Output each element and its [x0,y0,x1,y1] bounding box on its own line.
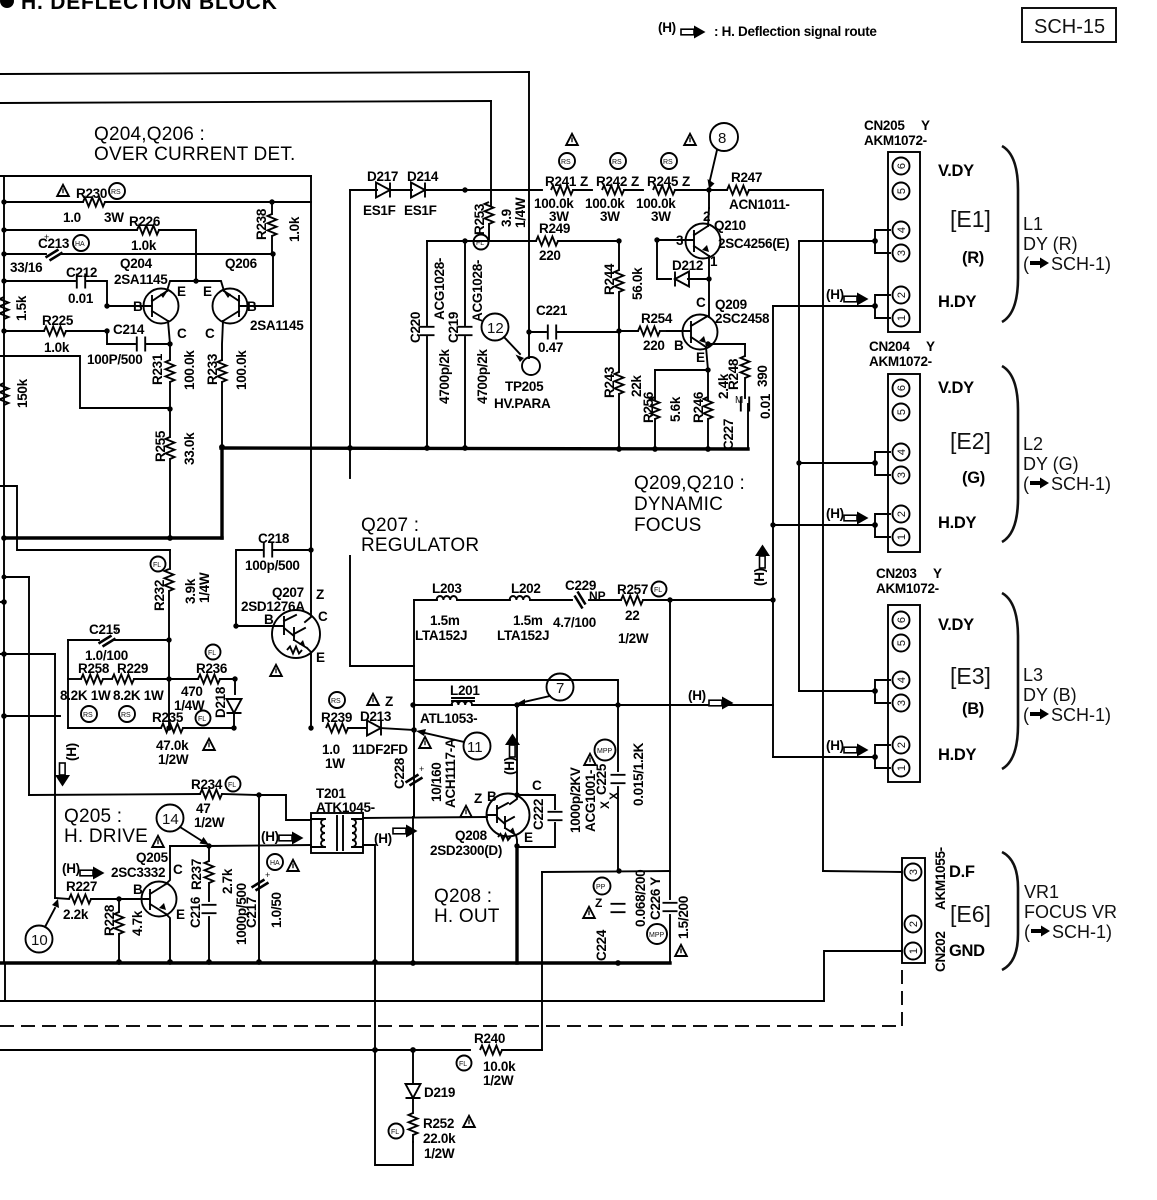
svg-text:C221: C221 [536,303,568,318]
svg-text:3: 3 [896,250,908,256]
wire Q205 collector row [170,845,209,847]
svg-text:MPP: MPP [649,932,665,939]
svg-text:2: 2 [896,511,908,517]
wire line B (V.DY pair feed) [798,242,800,691]
svg-text:Z: Z [474,791,482,806]
svg-text:D214: D214 [407,169,439,184]
connector CN202 [902,847,948,972]
svg-text:(H): (H) [826,738,844,753]
resistor R244 [602,238,645,331]
svg-text:3: 3 [896,700,908,706]
SCH-15 box [1022,8,1116,42]
svg-text:Z: Z [631,174,639,189]
bracket pins 2-1 [875,514,890,537]
resistor R256 [641,391,683,449]
svg-text:C: C [173,862,183,877]
svg-text:R239: R239 [321,710,352,725]
resistor R257 [617,582,776,647]
svg-text:6: 6 [896,385,908,391]
svg-text:CN203: CN203 [876,566,917,581]
pin 2 [893,506,910,523]
resistor R234 [29,777,259,831]
svg-text:1.5k: 1.5k [14,295,29,321]
svg-text:R236: R236 [196,661,228,676]
pin 6 [893,380,910,397]
svg-text:DY (G): DY (G) [1023,454,1079,474]
svg-text:R228: R228 [102,904,117,936]
pin 3 [893,467,910,484]
svg-text:R256: R256 [641,391,656,423]
pin 3 [893,245,910,262]
svg-text:C216: C216 [188,896,203,928]
capacitor C219 [446,241,490,448]
svg-text:H. DRIVE: H. DRIVE [64,826,148,847]
brace E2 [1002,366,1018,542]
wire E1 H pair [773,305,875,307]
legend H deflection signal route [658,20,877,39]
resistor R233 [205,350,249,447]
svg-text:14: 14 [162,811,179,828]
svg-text:7: 7 [556,680,564,697]
resistor R232 [151,550,213,640]
capacitor C224 [583,870,648,961]
svg-text:ATL1053-: ATL1053- [420,711,477,726]
svg-text:+: + [114,625,119,635]
svg-text:FL: FL [228,782,236,789]
resistor R238 [254,199,302,254]
svg-text:HA: HA [270,860,280,867]
svg-text:(H): (H) [826,287,844,302]
svg-text:L2: L2 [1023,434,1043,454]
svg-text:4: 4 [896,677,908,683]
connector CN203 [876,566,942,782]
svg-text:SCH-1): SCH-1) [1052,922,1112,942]
wire ground return loop [375,962,413,1165]
wire E2 V pair [799,462,875,464]
resistor R226 row [4,214,196,281]
wire feedback left loop [0,356,170,408]
svg-text:56.0k: 56.0k [630,267,645,300]
svg-text:NP: NP [589,589,606,603]
svg-text:V.DY: V.DY [938,162,974,180]
transistor Q204 [107,256,199,344]
svg-text:100p/500: 100p/500 [245,558,300,573]
svg-text:1.0k: 1.0k [44,340,70,355]
svg-text:6: 6 [896,163,908,169]
transistor Q206 [196,254,304,360]
svg-text:R230: R230 [76,186,107,201]
svg-text:E: E [203,284,212,299]
svg-text:(H): (H) [502,757,517,775]
svg-text:+: + [419,764,424,774]
wire C224 top row y871 [542,871,670,872]
svg-text:100.0k: 100.0k [234,350,249,390]
svg-text:1: 1 [896,765,908,771]
resistor R228 [102,896,145,962]
testpoint TP205 [494,357,551,411]
resistor 150k left rail [0,378,30,408]
svg-text:C: C [532,778,542,793]
svg-text:0.01: 0.01 [758,393,773,419]
svg-text:(: ( [1023,254,1029,274]
svg-text:ES1F: ES1F [404,203,437,218]
resistor R249 [536,221,619,263]
svg-text:+: + [265,870,270,880]
wire stub y486 to R232 top row [0,486,170,550]
resistor R230 row [4,183,311,225]
svg-text:RS: RS [121,712,131,719]
pin 1 [893,310,910,327]
resistor R237 [189,846,235,901]
svg-text:(G): (G) [962,469,985,487]
signal arrow (H) into Q205 base [62,861,105,880]
svg-text:L201: L201 [450,683,480,698]
pin 1 [893,760,910,777]
signal arrow (H) E1 [826,287,869,306]
svg-text:1/4W: 1/4W [513,197,528,228]
svg-text:4: 4 [896,227,908,233]
signal arrow (H) E2 [826,506,869,525]
svg-text:C: C [177,326,187,341]
diode D218 [213,676,242,730]
bracket pins 2-1 [875,295,890,318]
wire line C (H.DY feed) [772,306,774,757]
wire T201 secondary bottom to bus [363,845,375,962]
svg-text:C: C [205,326,215,341]
connector CN205 [864,118,930,332]
svg-text:ACH1117-A: ACH1117-A [443,738,458,808]
pin 3 [893,695,910,712]
svg-text:LTA152J: LTA152J [415,628,467,643]
wire dashed boundary [0,1025,902,1027]
resistor R253 [472,197,528,249]
svg-text:3W: 3W [549,209,569,224]
capacitor C229 [553,578,621,630]
capacitor C217 [244,795,299,962]
svg-text:E: E [316,650,325,665]
svg-text:1: 1 [710,254,718,269]
resistor R231 [150,344,197,409]
svg-text:V.DY: V.DY [938,379,974,397]
svg-text:470: 470 [181,684,203,699]
svg-text:1.0k: 1.0k [287,216,302,242]
svg-text:ES1F: ES1F [363,203,396,218]
svg-text:2: 2 [896,292,908,298]
callout 14 [157,805,210,846]
svg-text:RS: RS [83,712,93,719]
resistor R245 [636,134,709,224]
svg-text:(H): (H) [658,20,676,35]
svg-text:ACG1028-: ACG1028- [432,258,447,320]
svg-text:RS: RS [111,189,121,196]
svg-text:33/16: 33/16 [10,260,43,275]
svg-text:2: 2 [703,209,710,224]
svg-text:DYNAMIC: DYNAMIC [634,494,723,515]
section label Q209,Q210 DYNAMIC FOCUS [634,473,745,536]
wire right rail to Q207 collector [310,176,312,611]
svg-text:Q207: Q207 [272,585,304,600]
pin 2 [893,737,910,754]
capacitor C226 [647,600,691,963]
capacitor C225 [584,702,646,871]
wire riser x55 to R227 row [54,654,56,898]
capacitor C221 [526,303,619,355]
transistor Q205 [111,846,185,962]
svg-text:X: X [598,801,612,809]
svg-text:5: 5 [896,409,908,415]
svg-text:Q204: Q204 [120,256,153,271]
wire R232 bottom to R236 row [168,640,170,728]
svg-text:C212: C212 [66,265,97,280]
svg-text:2.7k: 2.7k [220,868,235,894]
wire diode row to R241 [465,189,542,191]
svg-text:GND: GND [949,942,985,960]
svg-text:4.7/100: 4.7/100 [553,615,596,630]
svg-text:T201: T201 [316,786,346,801]
wire rail x350 bus to row666 [349,449,351,478]
wire line A (R247 node to CN202 D.F) [822,190,824,871]
svg-text:Y: Y [933,566,942,581]
svg-text:Q210: Q210 [714,218,746,233]
callout 8 [708,123,739,189]
svg-text:(B): (B) [962,700,984,718]
resistor R246 [691,370,731,449]
pin 1 [905,943,922,960]
svg-text:[E3]: [E3] [950,663,991,689]
svg-text:4700p/2k: 4700p/2k [475,349,490,404]
wire box top rail [0,175,311,177]
labels E6 [949,863,991,960]
svg-text:R241: R241 [545,174,577,189]
svg-text:+: + [44,232,49,242]
svg-text:8: 8 [718,130,726,147]
svg-text:(H): (H) [374,831,392,846]
signal arrow (H) up at x513 [502,734,520,776]
svg-text:L3: L3 [1023,665,1043,685]
svg-text:1: 1 [908,948,920,954]
svg-text:Q205: Q205 [136,850,169,865]
svg-text:E: E [176,907,185,922]
svg-text:Q204,Q206 :: Q204,Q206 : [94,124,205,145]
wire E3 V pair [799,690,875,692]
svg-text:C220: C220 [408,312,423,343]
section label Q207 REGULATOR [361,515,479,556]
svg-text:Q209: Q209 [715,297,747,312]
diode D217 [350,169,398,218]
svg-text:B: B [674,338,684,353]
wire left drop x350 [349,190,351,448]
capacitor C213 row [4,232,276,275]
svg-text:1.0: 1.0 [63,210,81,225]
svg-text:Q206: Q206 [225,256,258,271]
signal arrow (H) after T201 [374,825,418,847]
wire bus y1001 [0,1000,824,1002]
svg-text:100.0k: 100.0k [182,350,197,390]
svg-text:0.015/1.2K: 0.015/1.2K [631,742,646,806]
label L3 DY(B) [1023,665,1111,725]
svg-text:1000p/2KV: 1000p/2KV [568,767,583,833]
pin 4 [893,444,910,461]
capacitor C218 [233,531,313,629]
svg-text:D218: D218 [213,686,228,718]
resistor R240 [457,1031,543,1088]
svg-text:R231: R231 [150,353,165,385]
pin 2 [905,916,922,933]
wire thick emitter rail y538 [4,536,222,539]
svg-text:Y: Y [921,118,930,133]
svg-text:ACG1001-: ACG1001- [583,770,598,832]
svg-text:[E6]: [E6] [950,901,991,927]
signal arrow (H) right y697 [688,688,734,710]
svg-text:RS: RS [612,159,622,166]
svg-text:D217: D217 [367,169,398,184]
svg-text:MPP: MPP [597,748,613,755]
svg-text:1/2W: 1/2W [618,631,649,646]
svg-text:R240: R240 [474,1031,505,1046]
svg-text:1.0/50: 1.0/50 [269,892,284,928]
svg-text:1.5m: 1.5m [513,613,543,628]
svg-text:DY (R): DY (R) [1023,234,1078,254]
svg-text:H.DY: H.DY [938,293,977,311]
svg-text:B: B [133,299,143,314]
svg-text:(: ( [1023,705,1029,725]
resistor R227 [55,879,119,922]
svg-text:D212: D212 [672,258,703,273]
resistor R252 [389,1113,475,1161]
wire main ground bus y963 (thick) [0,961,670,964]
svg-text:R245: R245 [647,174,679,189]
svg-text:VR1: VR1 [1024,882,1059,902]
svg-text:FOCUS VR: FOCUS VR [1024,902,1117,922]
svg-text:C228: C228 [392,757,407,789]
svg-text:C224: C224 [594,929,609,961]
svg-text:R253: R253 [472,203,487,235]
svg-text:Y: Y [926,339,935,354]
svg-text:E: E [524,830,533,845]
svg-text:R257: R257 [617,582,648,597]
svg-text:R226: R226 [129,214,161,229]
pin 6 [893,612,910,629]
svg-text:3: 3 [676,233,684,248]
wire Q209 emitter node [655,367,711,400]
svg-text:1/2W: 1/2W [158,752,189,767]
signal arrow (H) up at x762 [752,545,770,587]
resistor R225 row [4,313,107,355]
svg-text:C: C [696,295,706,310]
svg-text:22: 22 [625,608,639,623]
svg-text:3W: 3W [651,209,671,224]
capacitor C214 [87,303,173,367]
svg-text:RS: RS [561,159,571,166]
svg-text:8.2K 1W: 8.2K 1W [113,688,164,703]
resistor 1.5k left rail [0,295,29,321]
wire left rail [3,176,5,963]
resistor R258 [60,661,112,722]
svg-text:: H. Deflection signal route: : H. Deflection signal route [714,24,877,39]
svg-text:V.DY: V.DY [938,616,974,634]
svg-text:11: 11 [467,739,483,756]
svg-text:(R): (R) [962,249,984,267]
pin 2 [893,287,910,304]
svg-text:C: C [318,609,328,624]
svg-text:R232: R232 [152,580,167,611]
svg-text:(H): (H) [826,506,844,521]
svg-text:H. DEFLECTION BLOCK: H. DEFLECTION BLOCK [21,0,278,14]
diode D219 (zener) [406,1050,456,1113]
svg-text:220: 220 [539,248,561,263]
wire C228 rail down to T201 secondary and bus [413,787,415,817]
wire E1 V pair [799,240,875,242]
svg-text:B: B [247,299,257,314]
wire E2 H pair [773,524,875,526]
svg-text:2.2k: 2.2k [63,907,89,922]
callout 10 [26,899,60,953]
svg-text:FL: FL [208,650,216,657]
svg-text:R252: R252 [423,1116,454,1131]
svg-text:Z: Z [595,896,602,910]
svg-text:AKM1072-: AKM1072- [869,354,932,369]
svg-text:1.5m: 1.5m [430,613,460,628]
svg-text:D219: D219 [424,1085,455,1100]
svg-text:(H): (H) [62,861,80,876]
wire row y1050 [0,1049,470,1051]
label L1 DY(R) [1023,214,1111,274]
svg-text:390: 390 [755,365,770,387]
svg-text:47: 47 [196,801,210,816]
svg-text:AKM1072-: AKM1072- [876,581,939,596]
svg-text:100P/500: 100P/500 [87,352,142,367]
svg-text:ATK1045-: ATK1045- [316,800,375,815]
svg-text:R243: R243 [602,366,617,398]
wire top rail 1 [0,72,529,74]
labels E2 [938,379,991,532]
svg-text:C227: C227 [721,419,736,450]
svg-text:R242: R242 [596,174,627,189]
svg-text:R233: R233 [205,353,220,385]
svg-text:10.0k: 10.0k [483,1059,516,1074]
svg-text:8.2K 1W: 8.2K 1W [60,688,111,703]
pin 4 [893,672,910,689]
transistor Q207 (darlington) [236,585,328,731]
label VR1 FOCUS VR [1024,882,1117,942]
svg-text:FL: FL [391,1129,399,1136]
svg-text:0.068/200: 0.068/200 [633,870,648,927]
svg-text:RS: RS [663,159,673,166]
capacitor C228 [392,727,458,808]
svg-text:R254: R254 [641,311,673,326]
svg-text:L1: L1 [1023,214,1043,234]
svg-text:4.7k: 4.7k [130,910,145,936]
resistor R236 [169,645,235,714]
capacitor C220 [408,241,452,448]
brace E1 [1002,146,1018,322]
bracket pins 4-3 [875,680,890,703]
svg-text:(: ( [1023,474,1029,494]
capacitor C212 row [4,265,107,306]
svg-text:5.6k: 5.6k [668,396,683,422]
capacitor C216 [188,883,249,962]
svg-text:TP205: TP205 [505,379,544,394]
labels E1 [938,162,991,311]
signal arrow (H) E3 [826,738,869,757]
svg-text:C226 Y: C226 Y [648,877,663,920]
svg-text:1.5/200: 1.5/200 [676,896,691,939]
svg-text:3: 3 [896,472,908,478]
wire base row y241 [427,240,536,242]
bracket pins 4-3 [875,452,890,475]
svg-text:2SD2300(D): 2SD2300(D) [430,843,502,858]
svg-text:R244: R244 [602,263,617,295]
